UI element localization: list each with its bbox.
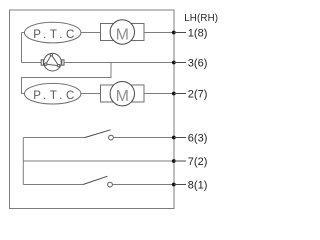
motor M1 [101,20,145,44]
terminal stub 1(8) [174,32,186,34]
wire: left riser PTC1 to overload [22,33,25,63]
wire PTC1 to motor M1 [81,32,101,34]
terminal stub 2(7) [174,93,186,95]
terminal junction dot 3(6) [172,61,176,65]
svg-text:7(2): 7(2) [188,156,208,168]
wire to switch S1 [23,137,85,139]
terminal stub 3(6) [174,62,186,64]
terminal junction dot 8(1) [172,183,176,187]
terminal stub 8(1) [174,184,186,186]
svg-text:M: M [116,27,129,44]
terminal junction dot 7(2) [172,159,176,163]
PTC thermistor PTC1 [25,22,81,43]
svg-text:P.T.C: P.T.C [33,90,78,102]
wire: bottom-section left riser [22,138,24,185]
terminal stub 7(2) [174,160,186,162]
wire: riser to overload protector [22,62,42,64]
wire overload to terminal 3(6) [64,62,174,64]
terminal junction dot 6(3) [172,136,176,140]
svg-text:2(7): 2(7) [188,88,208,100]
PTC thermistor PTC2 [25,83,81,104]
overload protector OLP (circle with triangle) [41,53,64,71]
switch S2 (open) [83,176,108,184]
svg-text:6(3): 6(3) [188,132,208,144]
wire PTC2 to motor M2 [81,93,101,95]
terminal junction dot 2(7) [172,92,176,96]
wire to switch S2 [23,184,83,186]
motor M2 [101,82,145,106]
wire branch from overload output down and across to PTC2 [22,63,112,94]
wire to terminal 7(2) [23,160,174,162]
wire switch S1 to terminal 6(3) [113,137,174,139]
enclosure box LH(RH) unit outline (right edge is terminal bus) [10,10,175,209]
wire motor M1 to terminal 1(8) [144,32,174,34]
svg-text:8(1): 8(1) [188,179,208,191]
svg-text:P.T.C: P.T.C [33,29,78,41]
wire switch S2 to terminal 8(1) [112,184,174,186]
svg-text:LH(RH): LH(RH) [184,13,218,24]
wire motor M2 to terminal 2(7) [144,93,174,95]
svg-text:M: M [116,88,129,105]
terminal stub 6(3) [174,137,186,139]
svg-text:3(6): 3(6) [188,57,208,69]
switch S1 (open) [85,130,111,138]
svg-text:1(8): 1(8) [188,27,208,39]
terminal junction dot 1(8) [172,31,176,35]
